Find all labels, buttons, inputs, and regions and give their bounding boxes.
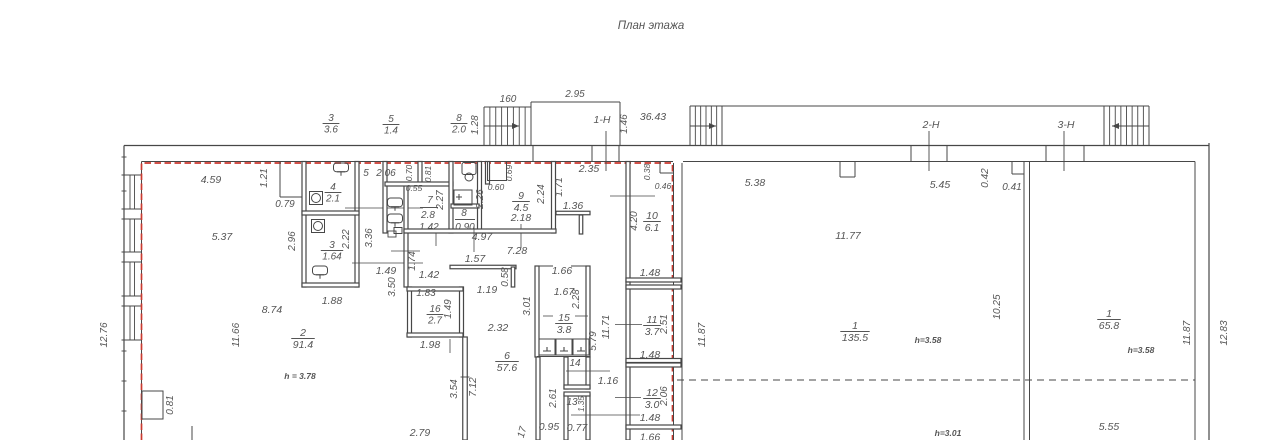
svg-text:3.01: 3.01	[522, 296, 533, 315]
svg-text:1.74: 1.74	[407, 251, 418, 271]
svg-text:12.83: 12.83	[1219, 320, 1230, 345]
dim fraction 3/3.6	[323, 113, 340, 136]
room 12 leader	[615, 397, 641, 399]
svg-text:11.87: 11.87	[697, 322, 708, 347]
closet walls row	[404, 184, 408, 287]
svg-text:160: 160	[500, 94, 517, 105]
dim fraction 8/2.0	[451, 113, 468, 136]
wall below stalls	[536, 357, 540, 440]
svg-text:1.21: 1.21	[259, 168, 270, 187]
corner notch box	[659, 162, 661, 173]
svg-text:1.19: 1.19	[477, 284, 498, 296]
svg-text:0.60: 0.60	[488, 182, 505, 192]
svg-text:4.59: 4.59	[201, 174, 222, 186]
svg-text:2.35: 2.35	[578, 163, 600, 175]
room 3 label 1.64	[321, 240, 343, 263]
door tick bottom left	[191, 426, 193, 440]
svg-text:1.66: 1.66	[640, 432, 661, 440]
room 11 leader	[615, 324, 642, 326]
svg-text:6.1: 6.1	[645, 222, 660, 234]
room 1 label 65.8	[1097, 308, 1121, 332]
svg-text:7.28: 7.28	[507, 245, 528, 257]
svg-text:2: 2	[299, 327, 306, 339]
svg-text:2.06: 2.06	[375, 168, 396, 179]
svg-text:2.1: 2.1	[325, 194, 340, 205]
svg-text:0.77: 0.77	[567, 422, 589, 434]
room 4 label 2.1	[325, 182, 342, 205]
svg-text:1.64: 1.64	[322, 252, 342, 263]
pilaster 1	[839, 162, 841, 178]
svg-text:5.55: 5.55	[1099, 421, 1120, 433]
shaft box	[488, 162, 507, 181]
svg-text:1.48: 1.48	[640, 349, 661, 361]
svg-text:2.32: 2.32	[487, 322, 509, 334]
interior wall between rooms 1-135.5 and 1-65.8	[1023, 162, 1025, 440]
svg-text:6: 6	[504, 350, 510, 362]
svg-text:1.49: 1.49	[443, 299, 454, 319]
svg-text:11.66: 11.66	[231, 322, 242, 347]
svg-text:2-Н: 2-Н	[922, 119, 940, 131]
svg-text:0.69: 0.69	[504, 164, 514, 181]
ledge 1.57	[450, 265, 516, 269]
zone east wall	[673, 163, 675, 440]
dim fraction 5/1.4	[383, 114, 400, 137]
room 13 box	[564, 394, 568, 440]
rooms 11-12 left wall	[626, 282, 630, 440]
svg-text:1.42: 1.42	[419, 269, 440, 281]
svg-text:0.81: 0.81	[165, 395, 176, 414]
svg-text:1.71: 1.71	[554, 177, 565, 196]
vestibule 1-Н	[530, 102, 532, 146]
svg-text:11: 11	[647, 314, 658, 326]
gallery left hatch with arrow	[721, 106, 723, 146]
room 6 label 57.6	[495, 350, 519, 374]
room 14 box	[564, 357, 568, 389]
svg-text:1.48: 1.48	[640, 412, 661, 424]
svg-text:16: 16	[429, 304, 441, 315]
svg-text:1-Н: 1-Н	[594, 114, 611, 126]
svg-text:14: 14	[569, 358, 581, 369]
svg-text:4.20: 4.20	[629, 211, 640, 231]
svg-text:4.97: 4.97	[472, 231, 494, 243]
svg-text:0.58: 0.58	[500, 267, 511, 287]
pedestal sink room 8	[462, 163, 476, 182]
red dashed lease zone boundary	[142, 163, 673, 440]
svg-text:1.48: 1.48	[640, 267, 661, 279]
dashed level line	[677, 379, 1195, 381]
pilaster 2 and wall	[1011, 162, 1013, 175]
wall below room 16	[463, 337, 468, 440]
room 11 box	[626, 285, 681, 289]
room 16 label 2.7	[427, 304, 444, 327]
svg-text:3.8: 3.8	[557, 324, 572, 336]
svg-text:3.50: 3.50	[387, 277, 398, 297]
svg-text:0.38: 0.38	[642, 163, 652, 180]
svg-text:1.4: 1.4	[384, 126, 398, 137]
room 1 label 135.5	[840, 320, 869, 344]
svg-text:0.81: 0.81	[423, 165, 433, 182]
room 12 label 3.0	[643, 387, 661, 411]
svg-text:5.38: 5.38	[745, 177, 766, 189]
svg-text:1.16: 1.16	[598, 375, 619, 387]
svg-text:11.71: 11.71	[601, 315, 612, 339]
room 12 box	[626, 363, 681, 367]
svg-text:План этажа: План этажа	[618, 20, 685, 32]
svg-text:12: 12	[646, 387, 658, 399]
exterior left wall	[123, 146, 125, 440]
svg-text:1: 1	[1106, 308, 1112, 320]
svg-text:3.0: 3.0	[645, 399, 660, 411]
svg-text:2.61: 2.61	[548, 388, 559, 408]
rooms 3-4 bottom wall	[302, 283, 359, 287]
room 15 left wall	[535, 266, 539, 357]
sink room 4	[310, 192, 323, 205]
svg-text:4: 4	[330, 182, 336, 193]
rooms 3-4 right wall	[355, 162, 359, 288]
svg-text:2.06: 2.06	[659, 386, 670, 407]
svg-text:1.66: 1.66	[552, 265, 573, 277]
svg-text:7: 7	[427, 195, 433, 206]
svg-text:1.57: 1.57	[465, 253, 487, 265]
room 2 label 91.4	[291, 327, 315, 351]
svg-text:2.0: 2.0	[451, 125, 466, 136]
svg-text:2.96: 2.96	[287, 231, 298, 252]
svg-text:2.7: 2.7	[427, 316, 442, 327]
svg-text:91.4: 91.4	[293, 339, 314, 351]
svg-text:1.49: 1.49	[376, 265, 397, 277]
svg-text:0.46: 0.46	[655, 181, 672, 191]
svg-text:0.55: 0.55	[406, 183, 423, 193]
room 10 door dim line	[610, 195, 655, 197]
svg-text:5.45: 5.45	[930, 179, 951, 191]
toilet room 4	[334, 163, 349, 176]
svg-text:2.22: 2.22	[341, 229, 352, 250]
room 11 label 3.7	[643, 314, 661, 338]
top wall opening ticks	[910, 146, 912, 162]
svg-text:5.37: 5.37	[212, 231, 234, 243]
svg-text:15: 15	[558, 312, 570, 324]
svg-text:7.12: 7.12	[468, 377, 479, 397]
svg-text:0.42: 0.42	[980, 168, 991, 188]
room 3 toilet	[313, 266, 328, 279]
rooms bottom wall	[404, 229, 556, 233]
exterior right wall	[1208, 143, 1210, 440]
svg-text:0.41: 0.41	[1002, 182, 1021, 193]
box on left wall	[142, 391, 163, 419]
svg-text:3.54: 3.54	[449, 379, 460, 399]
svg-text:8: 8	[456, 113, 462, 124]
svg-text:2.26: 2.26	[475, 189, 486, 210]
room 16 box	[408, 287, 412, 337]
room 10 bottom wall	[626, 278, 681, 282]
svg-text:8: 8	[461, 208, 467, 219]
svg-text:2.8: 2.8	[420, 210, 435, 221]
rooms 3-4 left wall	[302, 162, 306, 288]
svg-text:h=3.58: h=3.58	[915, 335, 942, 345]
room 3 sink	[312, 220, 325, 233]
svg-text:8.74: 8.74	[262, 304, 283, 316]
svg-text:3.6: 3.6	[324, 125, 338, 136]
room 5 wall	[383, 162, 387, 234]
svg-text:1.83: 1.83	[416, 288, 436, 299]
wc stalls	[539, 339, 555, 355]
svg-text:0.70: 0.70	[404, 164, 414, 181]
duct box on top wall	[279, 162, 281, 198]
room 9 label 4.5	[512, 190, 530, 214]
room 10 left wall	[626, 162, 630, 283]
svg-text:3-Н: 3-Н	[1058, 119, 1075, 131]
svg-text:2.24: 2.24	[536, 184, 547, 205]
svg-text:2.79: 2.79	[409, 427, 431, 439]
svg-text:1.98: 1.98	[420, 339, 441, 351]
shelf wall 1.36	[556, 211, 590, 215]
svg-text:2.51: 2.51	[659, 314, 670, 334]
svg-text:2.95: 2.95	[564, 89, 585, 100]
exterior top wall	[124, 145, 1209, 147]
room 9 right wall	[552, 162, 556, 234]
svg-text:135.5: 135.5	[842, 332, 868, 344]
svg-text:65.8: 65.8	[1099, 320, 1120, 332]
svg-text:1: 1	[852, 320, 858, 332]
svg-text:0.95: 0.95	[539, 421, 560, 433]
svg-text:36.43: 36.43	[640, 111, 666, 123]
svg-text:11.77: 11.77	[835, 230, 862, 242]
svg-text:1.28: 1.28	[470, 115, 481, 135]
svg-text:2.27: 2.27	[435, 190, 446, 211]
svg-text:2.18: 2.18	[510, 212, 532, 224]
svg-text:h = 3.78: h = 3.78	[284, 371, 316, 381]
rooms 3-4 middle wall	[302, 211, 359, 215]
svg-text:1.46: 1.46	[619, 114, 630, 134]
room 15 right wall	[586, 266, 590, 357]
washbasin room 8	[454, 190, 472, 205]
toilets pair right of wall	[388, 198, 403, 211]
svg-text:3: 3	[328, 113, 334, 124]
gallery right hatch with arrow	[1103, 106, 1105, 146]
left wall dim ticks	[122, 156, 127, 158]
svg-text:57.6: 57.6	[497, 362, 518, 374]
room 15 top lines	[535, 265, 553, 267]
svg-text:9: 9	[518, 190, 524, 202]
room 8 walls	[478, 162, 482, 234]
room 10 label 6.1	[643, 210, 661, 234]
svg-text:h=3.01: h=3.01	[935, 428, 962, 438]
svg-text:2.28: 2.28	[571, 289, 582, 310]
svg-text:5: 5	[388, 114, 394, 125]
left wall window 1	[122, 174, 142, 176]
room 15 label 3.8	[555, 312, 573, 336]
svg-text:5: 5	[363, 168, 369, 179]
svg-text:10: 10	[646, 210, 658, 222]
staircase 1 hatched	[484, 106, 531, 108]
room 7 right wall	[449, 162, 453, 234]
stalls bottom line	[537, 356, 590, 358]
gallery top line	[690, 105, 1149, 107]
svg-text:1.35: 1.35	[577, 396, 586, 412]
svg-text:12.76: 12.76	[99, 322, 110, 347]
svg-text:3.36: 3.36	[364, 228, 375, 248]
svg-text:1.88: 1.88	[322, 295, 343, 307]
svg-text:5.79: 5.79	[588, 331, 599, 351]
svg-text:h=3.58: h=3.58	[1128, 345, 1155, 355]
svg-text:1.36: 1.36	[563, 200, 584, 212]
svg-text:10.25: 10.25	[992, 294, 1003, 319]
svg-text:3: 3	[329, 240, 335, 251]
svg-text:11.87: 11.87	[1182, 320, 1193, 345]
svg-text:0.79: 0.79	[275, 199, 295, 210]
